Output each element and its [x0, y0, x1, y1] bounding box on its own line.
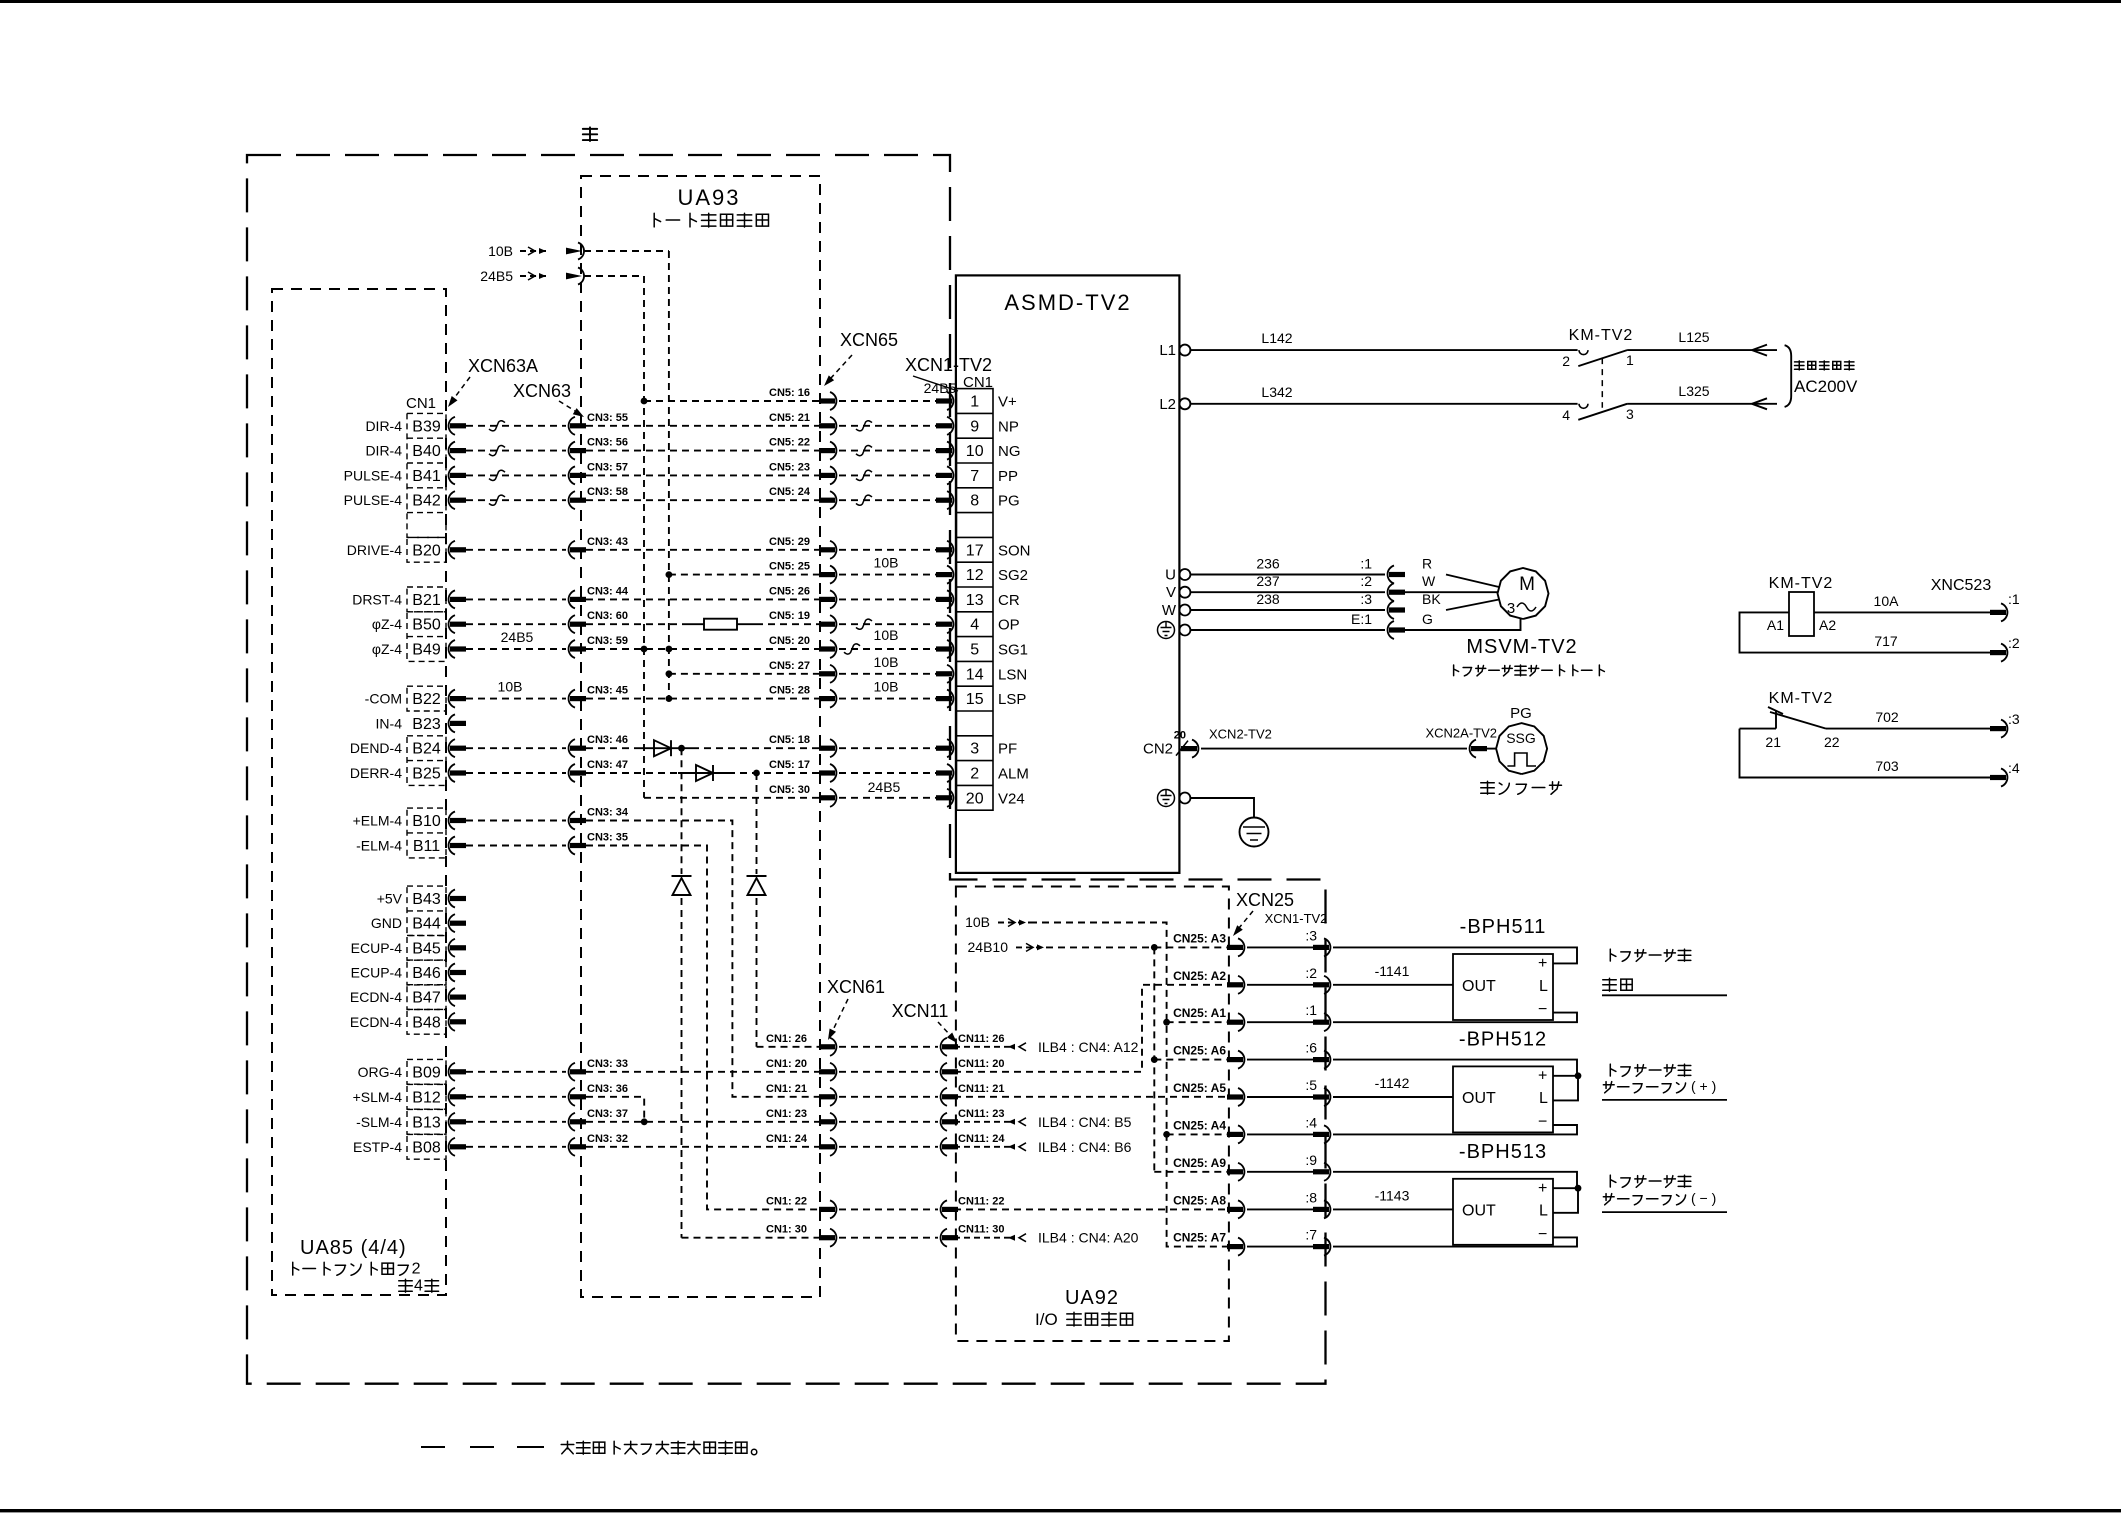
- label オーバーラン（＋）: [1603, 1082, 1614, 1093]
- connector motor :2: [1388, 583, 1394, 601]
- svg-text:CN25: A1: CN25: A1: [1173, 1006, 1226, 1020]
- wire CN3 to CN5 (UA93): [586, 598, 819, 600]
- connector CN5:22 (XCN65): [830, 442, 836, 460]
- connector CN25:A8 (XCN25): [1238, 1200, 1244, 1218]
- wire CN5 to XCN1-TV2: [839, 698, 938, 700]
- svg-text:LSP: LSP: [998, 691, 1026, 708]
- svg-text:ILB4 : CN4: B5: ILB4 : CN4: B5: [1038, 1114, 1132, 1130]
- svg-text:B08: B08: [412, 1139, 441, 1156]
- svg-text:XCN1-TV2: XCN1-TV2: [905, 355, 992, 375]
- junction DERR/diode: [753, 770, 760, 777]
- svg-text:B48: B48: [412, 1014, 441, 1031]
- svg-text:12: 12: [966, 567, 984, 584]
- svg-text:B45: B45: [412, 940, 441, 957]
- connector CN3:37 (XCN63): [569, 1113, 575, 1131]
- connector CN1:30 (XCN61): [830, 1229, 836, 1247]
- connector CN11:23 (XCN11): [941, 1113, 947, 1131]
- svg-text:CN1: 20: CN1: 20: [766, 1058, 807, 1070]
- wire B42 to CN3 (PULSE-4): [466, 499, 566, 501]
- svg-text:3: 3: [1507, 600, 1515, 617]
- DERR riser to CN1:26 (through surge diode): [756, 773, 758, 874]
- KM-TV2 contact pole 2 (4-3): [1579, 404, 1588, 409]
- svg-text:ASMD-TV2: ASMD-TV2: [1004, 290, 1131, 315]
- svg-text:OUT: OUT: [1462, 1090, 1496, 1107]
- wire 703 to XNC523:4: [1740, 729, 1991, 778]
- svg-text:−: −: [1538, 1001, 1547, 1018]
- wire to earth ground: [1190, 798, 1254, 817]
- connector motor E:1: [1388, 621, 1394, 639]
- motor lead G to frame: [1405, 619, 1521, 631]
- connector CN11:21 (XCN11): [941, 1088, 947, 1106]
- svg-text:7: 7: [970, 468, 979, 485]
- svg-text:-ELM-4: -ELM-4: [356, 838, 402, 854]
- wire ORG row CN3:33 to CN1:20: [586, 1071, 819, 1073]
- diode on DEND line: [654, 740, 671, 756]
- connector CN25:A2 (XCN25): [1238, 976, 1244, 994]
- svg-text:UA85 (4/4): UA85 (4/4): [300, 1237, 407, 1259]
- svg-text:10B: 10B: [874, 555, 899, 571]
- wire B-pin to CN3: [466, 1121, 566, 1123]
- KM-TV2 contact pole 1 (2-1): [1579, 350, 1588, 355]
- wire CN25:A6 to XCN1-TV2 :6: [1247, 1059, 1315, 1061]
- svg-text:CN11: 26: CN11: 26: [958, 1033, 1004, 1045]
- svg-text:DRST-4: DRST-4: [352, 591, 402, 607]
- UA93 subtitle モータ中継基板: [654, 213, 660, 227]
- connector CN3:36 (XCN63): [569, 1088, 575, 1106]
- svg-text::2: :2: [2008, 635, 2020, 651]
- connector CN11:20 (XCN11): [941, 1063, 947, 1081]
- svg-text:B50: B50: [412, 617, 441, 634]
- wire CN5 to XCN1-TV2: [839, 648, 938, 650]
- wire B-pin to CN3: [466, 698, 566, 700]
- svg-text:B41: B41: [412, 468, 441, 485]
- label オーバーラン（－）: [1603, 1194, 1614, 1205]
- svg-text:CN25: A3: CN25: A3: [1173, 931, 1226, 945]
- aux NC contact KM-TV2 (21-22): [1740, 728, 1777, 730]
- wire 24B5 feed to riser: [584, 275, 644, 277]
- wire CN5 to XCN1-TV2: [839, 673, 938, 675]
- wire -SLM row CN3:37 to CN1:23: [586, 1121, 819, 1123]
- svg-text:-BPH513: -BPH513: [1459, 1141, 1547, 1163]
- wire L325: [1627, 403, 1777, 405]
- svg-text::9: :9: [1305, 1152, 1317, 1168]
- wire CN1:24 to CN11:24: [839, 1146, 938, 1148]
- svg-text:CN5: 29: CN5: 29: [769, 536, 810, 548]
- svg-text:M: M: [1519, 574, 1535, 595]
- svg-text:10A: 10A: [1874, 593, 1900, 609]
- wire 702 to XNC523:3: [1826, 728, 1990, 730]
- svg-text:CN25: A4: CN25: A4: [1173, 1118, 1226, 1132]
- wire CN11:22 to CN25:A8: [954, 1208, 1227, 1210]
- wire ESTP row CN3:32 to CN1:24: [586, 1146, 819, 1148]
- svg-text:10B: 10B: [488, 243, 513, 259]
- svg-text:φZ-4: φZ-4: [372, 616, 402, 632]
- connector CN5:26 (XCN65): [830, 590, 836, 608]
- connector CN5:21 (XCN65): [830, 417, 836, 435]
- connector CN5:17 (XCN65): [830, 764, 836, 782]
- svg-text:XCN65: XCN65: [840, 330, 898, 350]
- wire CN1:23 to CN11:23: [839, 1121, 938, 1123]
- connector motor :1: [1388, 566, 1394, 584]
- arrowhead L325: [1752, 398, 1767, 409]
- svg-text:236: 236: [1256, 556, 1280, 572]
- wire CN1:20 to CN11:20: [839, 1071, 938, 1073]
- svg-text:PP: PP: [998, 468, 1018, 485]
- svg-text:ECDN-4: ECDN-4: [350, 989, 402, 1005]
- wire CN3 to CN5 (UA93): [586, 549, 819, 551]
- wire BPH511 OUT signal: [1333, 984, 1453, 986]
- connector CN5:18 (XCN65): [830, 739, 836, 757]
- svg-text:4: 4: [1562, 407, 1570, 423]
- wire 238 (BK): [1190, 609, 1385, 611]
- junction 10B/LSP: [666, 695, 673, 702]
- connector CN3:43 (XCN63): [569, 541, 575, 559]
- svg-text:CN11: 30: CN11: 30: [958, 1224, 1004, 1236]
- connector XCN1-TV2 :5: [1324, 1088, 1330, 1106]
- svg-text:UA93: UA93: [677, 185, 740, 210]
- UA85 board dashed box: [272, 289, 446, 1295]
- svg-text:CN3: 36: CN3: 36: [587, 1083, 628, 1095]
- connector CN3:55 (XCN63): [569, 417, 575, 435]
- svg-text:9: 9: [970, 418, 979, 435]
- svg-text:-1142: -1142: [1375, 1075, 1410, 1091]
- svg-text:CN1: CN1: [963, 374, 993, 391]
- wire CN5 to XCN1-TV2: [839, 425, 938, 427]
- connector CN3:57 (XCN63): [569, 466, 575, 484]
- arrowhead L125: [1752, 345, 1767, 356]
- svg-text::2: :2: [1360, 573, 1372, 589]
- UA85 subtitle 第4軸: [399, 1279, 413, 1292]
- svg-text:+ELM-4: +ELM-4: [353, 813, 403, 829]
- legend text 破線内が本体装置接続配線。: [561, 1441, 574, 1454]
- wire CN2 to encoder: [1201, 748, 1467, 750]
- svg-text:237: 237: [1256, 573, 1280, 589]
- cable break mark: [856, 421, 872, 431]
- svg-text:21: 21: [1765, 734, 1781, 750]
- svg-text:CN3: 37: CN3: 37: [587, 1108, 628, 1120]
- connector XCN1-TV2 :8: [1324, 1200, 1330, 1218]
- svg-text:XCN25: XCN25: [1236, 890, 1294, 910]
- svg-text:CN11: 24: CN11: 24: [958, 1133, 1005, 1145]
- svg-text:B23: B23: [412, 716, 441, 733]
- svg-text:B20: B20: [412, 542, 441, 559]
- svg-text:V: V: [1166, 584, 1176, 601]
- svg-text:CN1: 22: CN1: 22: [766, 1195, 807, 1207]
- svg-text::1: :1: [1305, 1002, 1317, 1018]
- svg-text:+: +: [1538, 1180, 1547, 1197]
- wire V+ row from 24B5 riser to CN5:16: [644, 400, 819, 402]
- underline (overrun+): [1602, 1099, 1727, 1101]
- wire CN1:30 to CN11:30: [839, 1237, 938, 1239]
- svg-text:CN3: 46: CN3: 46: [587, 734, 628, 746]
- svg-text::2: :2: [1305, 965, 1317, 981]
- svg-text:10B: 10B: [498, 679, 523, 695]
- connector CN5:20 (XCN65): [830, 640, 836, 658]
- wire V24 row from 24B5 riser to CN5:30: [644, 797, 819, 799]
- wire CN11:20 to CN25:A2 riser: [954, 985, 1227, 1072]
- svg-text:2: 2: [412, 1260, 421, 1277]
- wire 10B to riser and down to A1/A4/A7: [1030, 923, 1227, 1247]
- svg-text:V+: V+: [998, 394, 1017, 411]
- svg-text:B42: B42: [412, 493, 441, 510]
- svg-text:CN5: 22: CN5: 22: [769, 437, 810, 449]
- svg-text:KM-TV2: KM-TV2: [1769, 690, 1834, 707]
- svg-text:KM-TV2: KM-TV2: [1569, 327, 1634, 344]
- svg-text:CN5: 16: CN5: 16: [769, 387, 810, 399]
- svg-text:3: 3: [1626, 406, 1634, 422]
- wire 717 from coil A1 to XNC523:2: [1740, 612, 1991, 652]
- +SLM jog down to -SLM row: [586, 1097, 644, 1122]
- wire B-pin to CN3: [466, 598, 566, 600]
- connector CN3:32 (XCN63): [569, 1138, 575, 1156]
- svg-text:CN3: 44: CN3: 44: [587, 585, 629, 597]
- svg-text:DEND-4: DEND-4: [350, 740, 402, 756]
- svg-text:CN5: 19: CN5: 19: [769, 610, 810, 622]
- wire BPH512 - return: [1333, 1125, 1577, 1134]
- connector CN11:22 (XCN11): [941, 1200, 947, 1218]
- label トラバース軸 (origin sensor): [1610, 949, 1616, 961]
- svg-text:B49: B49: [412, 642, 441, 659]
- svg-text:-BPH512: -BPH512: [1459, 1028, 1547, 1050]
- svg-text:B24: B24: [412, 741, 441, 758]
- svg-text:22: 22: [1824, 734, 1840, 750]
- terminal U: [1179, 569, 1190, 580]
- svg-text:10B: 10B: [965, 914, 990, 930]
- motor lead W: [1405, 591, 1498, 593]
- svg-text:CN11: 23: CN11: 23: [958, 1108, 1004, 1120]
- svg-text:-SLM-4: -SLM-4: [356, 1114, 402, 1130]
- connector CN5:23 (XCN65): [830, 466, 836, 484]
- connector XNC523:1: [2001, 603, 2007, 621]
- wire CN1:22 to CN11:22: [839, 1208, 938, 1210]
- connector CN5:16 (XCN65): [830, 392, 836, 410]
- wire L342: [1190, 403, 1577, 405]
- label トラバース軸 (overrun+): [1610, 1064, 1616, 1076]
- connector CN5:27 (XCN65): [830, 665, 836, 683]
- wire CN5 to XCN1-TV2: [839, 598, 938, 600]
- svg-text:14: 14: [966, 666, 984, 683]
- junction 10B/SG2: [666, 571, 673, 578]
- svg-text:B47: B47: [412, 990, 441, 1007]
- svg-text:SON: SON: [998, 542, 1031, 559]
- wire CN5 to XCN1-TV2: [839, 623, 938, 625]
- wire 10B feed to riser: [584, 250, 669, 252]
- svg-text:CN3: 47: CN3: 47: [587, 759, 628, 771]
- svg-text:CN1: 21: CN1: 21: [766, 1083, 807, 1095]
- svg-text::3: :3: [2008, 711, 2020, 727]
- svg-text:L2: L2: [1159, 396, 1176, 413]
- svg-text:CN3: 32: CN3: 32: [587, 1133, 628, 1145]
- svg-text::7: :7: [1305, 1227, 1317, 1243]
- photo sensor BPH512 box: [1453, 1066, 1553, 1132]
- svg-text:CN5: 27: CN5: 27: [769, 660, 810, 672]
- svg-text:ORG-4: ORG-4: [358, 1064, 403, 1080]
- svg-text:B44: B44: [412, 916, 441, 933]
- connector CN1:20 (XCN61): [830, 1063, 836, 1081]
- svg-text:L125: L125: [1678, 329, 1709, 345]
- svg-text:CR: CR: [998, 592, 1020, 609]
- wire CN3:60 to CN5:19 with series resistor: [586, 623, 687, 625]
- connector CN3:44 (XCN63): [569, 590, 575, 608]
- svg-text:CN11: 22: CN11: 22: [958, 1195, 1004, 1207]
- stub CN11:24 to ILB4:CN4:B6: [954, 1146, 1010, 1148]
- svg-text::4: :4: [1305, 1114, 1317, 1130]
- legend dash sample: [421, 1446, 445, 1448]
- svg-text:24B5: 24B5: [480, 268, 513, 284]
- svg-text:15: 15: [966, 691, 984, 708]
- connector CN5:28 (XCN65): [830, 690, 836, 708]
- connector XCN1-TV2 :1: [1324, 1013, 1330, 1031]
- contactor coil KM-TV2: [1789, 592, 1814, 636]
- connector CN11:30 (XCN11): [941, 1229, 947, 1247]
- junction BPH513 L/+: [1575, 1185, 1582, 1192]
- wire CN3 to CN5 (UA93): [586, 450, 819, 452]
- svg-text:CN3: 43: CN3: 43: [587, 536, 628, 548]
- wire CN5 to XCN1-TV2: [839, 450, 938, 452]
- wire CN3:47 to CN5:17 (DERR) with diode: [586, 772, 678, 774]
- svg-text:CN25: A2: CN25: A2: [1173, 969, 1226, 983]
- svg-text:( + ): ( + ): [1691, 1078, 1716, 1094]
- junction 24B10/A3: [1151, 944, 1158, 951]
- svg-text:CN1: CN1: [406, 395, 436, 412]
- svg-text:702: 702: [1875, 709, 1899, 725]
- wire CN5 to XCN1-TV2: [839, 772, 938, 774]
- diode on DERR line: [696, 765, 713, 781]
- svg-text:CN3: 57: CN3: 57: [587, 461, 628, 473]
- svg-text:CN25: A5: CN25: A5: [1173, 1081, 1226, 1095]
- svg-text:20: 20: [1174, 730, 1186, 742]
- UA92 board dashed box: [956, 887, 1229, 1342]
- svg-text:CN25: A7: CN25: A7: [1173, 1231, 1226, 1245]
- svg-text:10B: 10B: [874, 679, 899, 695]
- connector CN1:22 (XCN61): [830, 1200, 836, 1218]
- svg-text:XNC523: XNC523: [1931, 577, 1992, 594]
- wire L142: [1190, 349, 1577, 351]
- underline (origin): [1602, 994, 1727, 996]
- wire B-pin to CN3: [466, 820, 566, 822]
- svg-text:W: W: [1162, 602, 1177, 619]
- svg-text:CN11: 20: CN11: 20: [958, 1058, 1004, 1070]
- wire CN11:21 to CN25:A5: [954, 1096, 1227, 1098]
- svg-text:G: G: [1422, 611, 1433, 627]
- svg-text:CN3: 56: CN3: 56: [587, 437, 628, 449]
- svg-text:PULSE-4: PULSE-4: [344, 492, 403, 508]
- connector CN3:34 (XCN63): [569, 812, 575, 830]
- label エンコーダ: [1481, 781, 1495, 794]
- wire B41 to CN3 (PULSE-4): [466, 474, 566, 476]
- svg-text:U: U: [1165, 567, 1176, 584]
- svg-text:-COM: -COM: [365, 691, 402, 707]
- svg-text:L142: L142: [1261, 330, 1292, 346]
- svg-text:SG2: SG2: [998, 567, 1028, 584]
- svg-text:1: 1: [1626, 352, 1634, 368]
- cable break mark: [844, 644, 860, 654]
- wire B-pin to CN3: [466, 623, 566, 625]
- svg-text:24B5: 24B5: [868, 779, 901, 795]
- svg-text:OP: OP: [998, 617, 1020, 634]
- wire CN5 to XCN1-TV2: [839, 747, 938, 749]
- svg-text:B21: B21: [412, 592, 441, 609]
- svg-text:LSN: LSN: [998, 666, 1027, 683]
- wire B-pin to CN3: [466, 747, 566, 749]
- svg-text:BK: BK: [1422, 591, 1441, 607]
- stub CN11:26 to ILB4:CN4:A12: [954, 1046, 1010, 1048]
- wire B-pin to CN3: [466, 549, 566, 551]
- svg-text:20: 20: [966, 790, 984, 807]
- wire CN25:A4 to XCN1-TV2 :4: [1247, 1133, 1315, 1135]
- svg-text:CN2: CN2: [1143, 741, 1173, 758]
- junction DEND/diode: [678, 745, 685, 752]
- svg-text::3: :3: [1305, 927, 1317, 943]
- wire BPH512 OUT signal: [1333, 1096, 1453, 1098]
- wire CN5 to XCN1-TV2: [839, 549, 938, 551]
- svg-text:2: 2: [1562, 353, 1570, 369]
- svg-text:CN5: 26: CN5: 26: [769, 585, 810, 597]
- label トラバース軸サーボモータ: [1454, 665, 1459, 676]
- svg-text:CN25: A6: CN25: A6: [1173, 1044, 1226, 1058]
- svg-text::3: :3: [1360, 591, 1372, 607]
- label トラバース軸 (overrun-): [1610, 1175, 1616, 1187]
- note mark 注 (title of dashed enclosure): [583, 127, 597, 141]
- wire BPH513 + supply from XCN1-TV2: [1333, 1172, 1577, 1188]
- svg-text:+5V: +5V: [377, 891, 403, 907]
- connector XCN1-TV2 :9: [1324, 1163, 1330, 1181]
- terminal PE (chassis): [1179, 793, 1190, 804]
- svg-text:φZ-4: φZ-4: [372, 641, 402, 657]
- svg-text:B13: B13: [412, 1114, 441, 1131]
- svg-text:CN3: 55: CN3: 55: [587, 412, 628, 424]
- svg-text:MSVM-TV2: MSVM-TV2: [1466, 636, 1577, 658]
- svg-text:CN11: 21: CN11: 21: [958, 1083, 1004, 1095]
- wire BPH512 L tied to +: [1553, 1076, 1578, 1101]
- connector XCN1-TV2 :6: [1324, 1051, 1330, 1069]
- svg-text:B22: B22: [412, 691, 441, 708]
- svg-text:XCN11: XCN11: [892, 1001, 949, 1021]
- connector CN25:A9 (XCN25): [1238, 1163, 1244, 1181]
- svg-text:PULSE-4: PULSE-4: [344, 467, 403, 483]
- wire B39 to CN3 (DIR-4): [466, 425, 566, 427]
- junction 10B/B49-SG1: [666, 646, 673, 653]
- brace for incoming mains: [1785, 345, 1792, 407]
- wire L125: [1627, 349, 1777, 351]
- connector CN25:A3 (XCN25): [1238, 938, 1244, 956]
- svg-text:−: −: [1538, 1226, 1547, 1243]
- wire BPH511 - return: [1333, 1013, 1577, 1023]
- svg-text:4: 4: [970, 617, 979, 634]
- svg-text:24B5: 24B5: [924, 380, 957, 396]
- connector CN5:25 (XCN65): [830, 566, 836, 584]
- svg-text:CN3: 35: CN3: 35: [587, 832, 628, 844]
- junction BPH512 L/+: [1575, 1072, 1582, 1079]
- svg-text:CN3: 34: CN3: 34: [587, 807, 629, 819]
- connector CN1:24 (XCN61): [830, 1138, 836, 1156]
- svg-text:B12: B12: [412, 1089, 441, 1106]
- svg-text:B46: B46: [412, 965, 441, 982]
- svg-text:ECDN-4: ECDN-4: [350, 1014, 402, 1030]
- wire CN25:A3 to XCN1-TV2 :3: [1247, 946, 1315, 948]
- svg-text:2: 2: [970, 766, 979, 783]
- svg-text:E:1: E:1: [1351, 611, 1372, 627]
- label 主回路電源: [1795, 361, 1804, 370]
- UA93 board dashed box: [581, 176, 820, 1297]
- svg-text:XCN63A: XCN63A: [468, 356, 538, 376]
- svg-text:−: −: [1538, 1113, 1547, 1130]
- junction 24B5/B49: [641, 646, 648, 653]
- connector CN1:21 (XCN61): [830, 1088, 836, 1106]
- svg-text:+: +: [1538, 1067, 1547, 1084]
- connector XNC523:3: [2001, 720, 2007, 738]
- svg-text:NP: NP: [998, 418, 1019, 435]
